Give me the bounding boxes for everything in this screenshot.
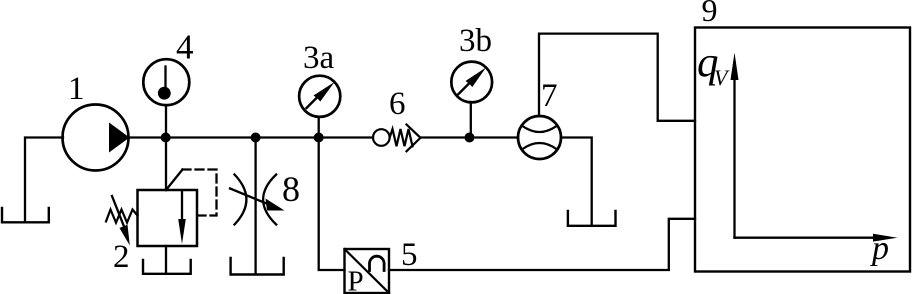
wire: flow meter 7 outlet to tank T4 bbox=[561, 138, 592, 225]
throttle valve 8 bbox=[230, 175, 285, 225]
svg-text:4: 4 bbox=[176, 28, 194, 67]
svg-text:8: 8 bbox=[282, 169, 300, 209]
svg-text:7: 7 bbox=[541, 78, 558, 114]
svg-text:5: 5 bbox=[401, 237, 418, 273]
relief valve 2 bbox=[106, 170, 217, 247]
svg-text:2: 2 bbox=[113, 239, 130, 275]
recorder 9 box bbox=[695, 28, 910, 272]
tank T1 (pump suction) bbox=[2, 208, 49, 222]
tank T4 (flow meter outlet) bbox=[568, 211, 616, 226]
svg-text:1: 1 bbox=[68, 71, 85, 107]
node A (gauge 4 / relief valve branch) bbox=[161, 133, 171, 143]
tank T3 (throttle outlet) bbox=[231, 258, 284, 275]
pressure gauge 3a bbox=[299, 76, 340, 138]
svg-text:p: p bbox=[870, 230, 889, 267]
pressure gauge 3b bbox=[451, 62, 492, 138]
node B (throttle valve 8 branch) bbox=[251, 133, 261, 143]
svg-text:9: 9 bbox=[702, 0, 718, 28]
damper 6 bbox=[373, 125, 421, 152]
svg-text:3a: 3a bbox=[303, 40, 335, 76]
wire: branch node A down to relief valve 2 bbox=[165, 138, 167, 191]
svg-text:6: 6 bbox=[389, 86, 406, 122]
wire: branch node B down to tank T3 through throttle 8 bbox=[254, 138, 256, 274]
flow meter 7 bbox=[518, 116, 561, 159]
thermometer 4 bbox=[143, 59, 189, 137]
wire: main pressure line pump to damper 6 bbox=[129, 136, 374, 138]
wire: pump suction line to tank T1 bbox=[25, 138, 63, 222]
svg-text:3b: 3b bbox=[459, 23, 492, 59]
pressure transducer 5 bbox=[345, 249, 390, 294]
qV / p axes inside recorder bbox=[731, 53, 898, 242]
wire: flow meter 7 signal to recorder 9 bbox=[539, 34, 695, 121]
wire: node C down to pressure transducer 5 bbox=[319, 138, 345, 271]
node D (gauge 3b junction) bbox=[465, 133, 475, 143]
svg-text:P: P bbox=[348, 266, 364, 294]
wire: relief valve 2 drain to tank T2 bbox=[165, 246, 167, 273]
tank T2 (relief valve drain) bbox=[143, 260, 191, 274]
node C (gauge 3a / transducer 5 branch) bbox=[314, 133, 324, 143]
pump 1 bbox=[63, 105, 130, 171]
wire: damper 6 to flow meter 7 bbox=[421, 136, 519, 138]
wire: transducer 5 signal to recorder 9 bbox=[389, 219, 695, 270]
